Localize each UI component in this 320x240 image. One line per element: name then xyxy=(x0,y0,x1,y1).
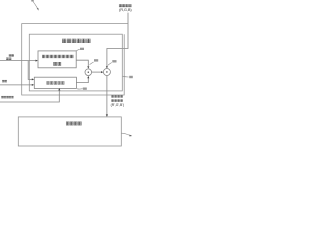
wire branch down to scaling box xyxy=(28,61,32,80)
label compensated image data xyxy=(111,95,113,97)
wire image data down to multiplier 2 xyxy=(107,13,128,67)
wire temperature xyxy=(0,84,33,86)
multiplier circle 2 xyxy=(103,69,110,76)
box scaling value output xyxy=(34,77,76,88)
ref 112 leader right of box edge xyxy=(123,75,129,78)
svg-text:(R,G,B): (R,G,B) xyxy=(119,8,132,12)
wire multiplier1 to multiplier2 xyxy=(92,71,102,73)
box position-based compensation value output xyxy=(38,51,76,68)
wire box2 to multiplier1 xyxy=(76,78,88,83)
label image data xyxy=(119,4,122,7)
label brightness adjustment circuit xyxy=(62,39,66,43)
label temperature xyxy=(2,80,4,82)
wire multiplier2 down to pixel array xyxy=(106,76,108,116)
wire display brightness xyxy=(0,90,59,103)
figure number 10 fragment (clipped at top) xyxy=(31,0,33,2)
outer box 100 xyxy=(22,24,128,95)
ref 104 leader xyxy=(77,88,83,90)
inner box brightness adjustment circuit xyxy=(29,34,122,91)
label display brightness xyxy=(1,96,3,98)
box pixel array xyxy=(18,117,121,146)
ref 114 leader pixel array xyxy=(122,133,130,135)
figure leader arrow xyxy=(33,2,38,9)
wire listener position xyxy=(0,60,37,62)
label listener position xyxy=(9,54,11,56)
svg-text:(R',G',B'): (R',G',B') xyxy=(111,103,124,107)
ref 106 leader xyxy=(90,62,94,65)
wire box1 to multiplier1 xyxy=(76,60,88,66)
ref 108 leader xyxy=(108,63,112,66)
ref 102 leader xyxy=(76,49,79,50)
arrowhead into multiplier 2 top xyxy=(106,66,108,68)
multiplier circle 1 xyxy=(85,69,92,76)
